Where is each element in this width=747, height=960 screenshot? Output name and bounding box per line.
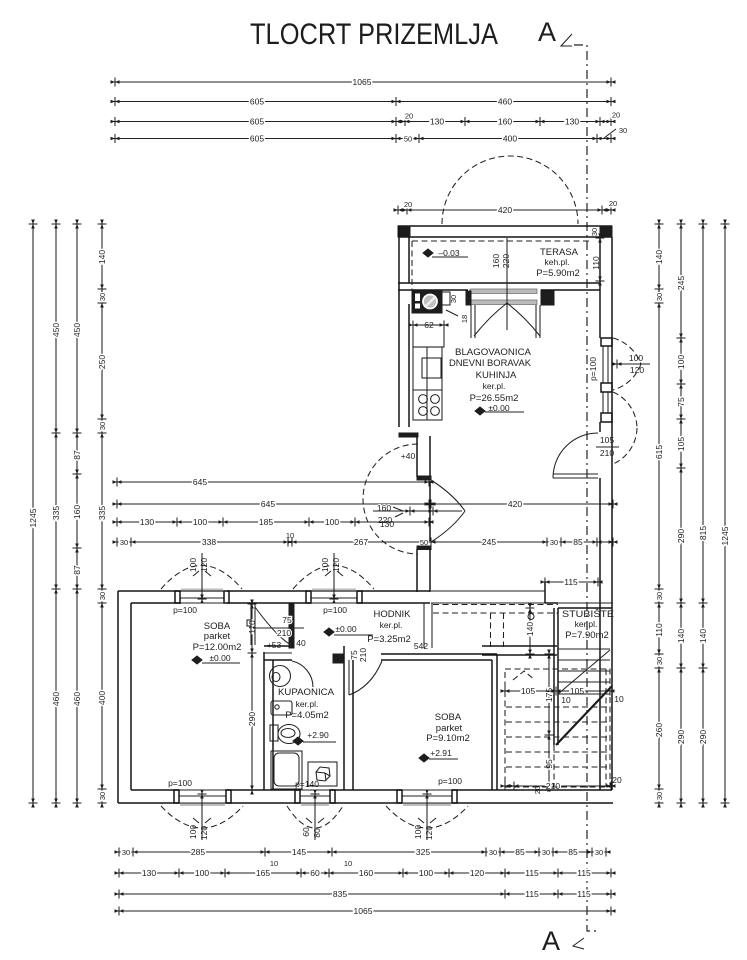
svg-text:120: 120 bbox=[470, 868, 484, 878]
svg-text:400: 400 bbox=[97, 691, 107, 705]
svg-text:160: 160 bbox=[491, 254, 501, 268]
svg-text:815: 815 bbox=[698, 526, 708, 540]
svg-text:645: 645 bbox=[193, 477, 207, 487]
svg-text:115: 115 bbox=[577, 889, 591, 899]
svg-text:p=100: p=100 bbox=[173, 605, 197, 615]
svg-text:645: 645 bbox=[261, 499, 275, 509]
svg-text:605: 605 bbox=[250, 97, 264, 107]
svg-text:P=7.90m2: P=7.90m2 bbox=[565, 630, 609, 641]
svg-text:460: 460 bbox=[51, 692, 61, 706]
svg-text:100: 100 bbox=[320, 558, 330, 572]
svg-text:75: 75 bbox=[282, 615, 292, 625]
svg-text:85: 85 bbox=[568, 847, 578, 857]
svg-text:–0.03: –0.03 bbox=[438, 248, 460, 258]
svg-text:+2.90: +2.90 bbox=[307, 730, 329, 740]
svg-text:30: 30 bbox=[98, 422, 107, 430]
svg-text:keh.pl.: keh.pl. bbox=[544, 257, 569, 267]
svg-text:1245: 1245 bbox=[720, 526, 730, 545]
svg-text:615: 615 bbox=[654, 445, 664, 459]
svg-text:542: 542 bbox=[414, 641, 428, 651]
svg-text:A: A bbox=[538, 17, 556, 47]
svg-text:460: 460 bbox=[72, 692, 82, 706]
svg-text:10: 10 bbox=[614, 694, 624, 704]
svg-text:18: 18 bbox=[460, 315, 469, 323]
svg-text:120: 120 bbox=[199, 558, 209, 572]
svg-text:parket: parket bbox=[204, 631, 231, 642]
svg-text:115: 115 bbox=[564, 577, 578, 587]
svg-text:KUPAONICA: KUPAONICA bbox=[278, 687, 335, 698]
svg-text:250: 250 bbox=[97, 355, 107, 369]
svg-text:120: 120 bbox=[424, 826, 434, 840]
svg-text:165: 165 bbox=[256, 868, 270, 878]
svg-text:20: 20 bbox=[404, 200, 412, 209]
svg-text:210: 210 bbox=[600, 448, 614, 458]
svg-text:30: 30 bbox=[122, 848, 130, 857]
svg-text:75: 75 bbox=[676, 397, 686, 407]
svg-text:87: 87 bbox=[72, 565, 82, 575]
svg-text:335: 335 bbox=[51, 506, 61, 520]
svg-text:400: 400 bbox=[503, 134, 517, 144]
svg-text:30: 30 bbox=[595, 848, 603, 857]
svg-text:220: 220 bbox=[501, 254, 511, 268]
svg-text:20: 20 bbox=[405, 112, 413, 121]
svg-text:p=100: p=100 bbox=[438, 776, 462, 786]
svg-text:460: 460 bbox=[498, 97, 512, 107]
svg-text:10: 10 bbox=[270, 859, 278, 868]
svg-text:260: 260 bbox=[654, 723, 664, 737]
svg-text:130: 130 bbox=[140, 517, 154, 527]
svg-text:105: 105 bbox=[676, 437, 686, 451]
svg-text:605: 605 bbox=[250, 134, 264, 144]
svg-text:p=100: p=100 bbox=[588, 357, 598, 381]
svg-text:100: 100 bbox=[195, 868, 209, 878]
svg-text:290: 290 bbox=[247, 712, 257, 726]
svg-text:100: 100 bbox=[419, 868, 433, 878]
svg-text:100: 100 bbox=[629, 353, 643, 363]
svg-text:p=100: p=100 bbox=[323, 605, 347, 615]
svg-text:335: 335 bbox=[97, 506, 107, 520]
svg-text:30: 30 bbox=[655, 792, 664, 800]
svg-text:50: 50 bbox=[404, 135, 412, 144]
svg-text:290: 290 bbox=[676, 529, 686, 543]
svg-text:1065: 1065 bbox=[353, 77, 372, 87]
svg-text:267: 267 bbox=[354, 537, 368, 547]
svg-text:30: 30 bbox=[489, 848, 497, 857]
svg-text:P=4.05m2: P=4.05m2 bbox=[285, 710, 329, 721]
svg-text:30: 30 bbox=[98, 293, 107, 301]
svg-text:+53: +53 bbox=[267, 640, 282, 650]
svg-text:ker.pl.: ker.pl. bbox=[380, 620, 403, 630]
svg-text:P=5.90m2: P=5.90m2 bbox=[536, 268, 580, 279]
svg-text:100: 100 bbox=[325, 517, 339, 527]
svg-text:40: 40 bbox=[296, 638, 306, 648]
svg-text:A: A bbox=[542, 926, 560, 956]
svg-text:100: 100 bbox=[413, 825, 423, 839]
svg-text:605: 605 bbox=[250, 117, 264, 127]
svg-text:835: 835 bbox=[333, 889, 347, 899]
svg-text:105: 105 bbox=[521, 686, 535, 696]
svg-text:140: 140 bbox=[676, 629, 686, 643]
svg-text:290: 290 bbox=[698, 730, 708, 744]
svg-text:30: 30 bbox=[619, 126, 627, 135]
svg-text:80: 80 bbox=[312, 828, 322, 838]
svg-text:P=9.10m2: P=9.10m2 bbox=[426, 733, 470, 744]
svg-text:30: 30 bbox=[120, 538, 128, 547]
svg-text:20: 20 bbox=[612, 111, 620, 120]
svg-text:130: 130 bbox=[380, 519, 394, 529]
svg-text:30: 30 bbox=[98, 592, 107, 600]
svg-text:ker.pl.: ker.pl. bbox=[575, 619, 598, 629]
svg-text:160: 160 bbox=[498, 117, 512, 127]
svg-text:110: 110 bbox=[654, 623, 664, 637]
svg-text:HODNIK: HODNIK bbox=[374, 609, 412, 620]
svg-text:60: 60 bbox=[310, 868, 320, 878]
svg-text:130: 130 bbox=[142, 868, 156, 878]
svg-text:ker.pl.: ker.pl. bbox=[296, 699, 319, 709]
svg-text:KUHINJA: KUHINJA bbox=[476, 370, 517, 381]
svg-text:420: 420 bbox=[508, 499, 522, 509]
svg-text:10: 10 bbox=[561, 695, 571, 705]
svg-text:100: 100 bbox=[188, 558, 198, 572]
svg-text:338: 338 bbox=[202, 537, 216, 547]
svg-text:SOBA: SOBA bbox=[435, 712, 462, 723]
svg-text:130: 130 bbox=[565, 117, 579, 127]
svg-text:100: 100 bbox=[676, 355, 686, 369]
svg-text:115: 115 bbox=[525, 868, 539, 878]
svg-text:285: 285 bbox=[191, 847, 205, 857]
svg-text:±0.00: ±0.00 bbox=[488, 403, 509, 413]
svg-text:245: 245 bbox=[676, 276, 686, 290]
svg-text:245: 245 bbox=[482, 537, 496, 547]
svg-text:110: 110 bbox=[591, 256, 601, 270]
svg-text:115: 115 bbox=[525, 889, 539, 899]
svg-text:60: 60 bbox=[301, 827, 311, 837]
svg-text:±0.00: ±0.00 bbox=[335, 624, 356, 634]
svg-text:30: 30 bbox=[590, 228, 599, 236]
svg-text:325: 325 bbox=[416, 847, 430, 857]
svg-text:160: 160 bbox=[359, 868, 373, 878]
svg-text:1245: 1245 bbox=[28, 508, 38, 527]
svg-text:P=3.25m2: P=3.25m2 bbox=[367, 634, 411, 645]
svg-text:30: 30 bbox=[449, 295, 458, 303]
svg-text:ker.pl.: ker.pl. bbox=[483, 381, 506, 391]
svg-text:140: 140 bbox=[97, 250, 107, 264]
svg-text:30: 30 bbox=[655, 293, 664, 301]
svg-text:140: 140 bbox=[525, 622, 535, 636]
svg-text:+2.91: +2.91 bbox=[430, 748, 452, 758]
svg-text:20: 20 bbox=[609, 199, 617, 208]
svg-text:145: 145 bbox=[292, 847, 306, 857]
svg-text:450: 450 bbox=[51, 323, 61, 337]
svg-text:30: 30 bbox=[655, 592, 664, 600]
svg-text:BLAGOVAONICA: BLAGOVAONICA bbox=[455, 347, 532, 358]
svg-text:120: 120 bbox=[630, 365, 644, 375]
svg-text:115: 115 bbox=[577, 868, 591, 878]
svg-text:140: 140 bbox=[698, 629, 708, 643]
svg-text:20: 20 bbox=[612, 775, 622, 785]
svg-text:10: 10 bbox=[344, 859, 352, 868]
svg-text:±0.00: ±0.00 bbox=[209, 653, 230, 663]
svg-text:100: 100 bbox=[193, 517, 207, 527]
svg-text:30: 30 bbox=[655, 657, 664, 665]
svg-text:185: 185 bbox=[259, 517, 273, 527]
svg-text:85: 85 bbox=[515, 847, 525, 857]
svg-text:210: 210 bbox=[277, 628, 291, 638]
svg-text:140: 140 bbox=[654, 250, 664, 264]
svg-text:120: 120 bbox=[331, 558, 341, 572]
svg-text:p=140: p=140 bbox=[295, 779, 319, 789]
svg-text:10: 10 bbox=[286, 531, 294, 540]
svg-text:210: 210 bbox=[358, 648, 368, 662]
svg-text:420: 420 bbox=[498, 205, 512, 215]
svg-text:30: 30 bbox=[542, 848, 550, 857]
svg-text:P=12.00m2: P=12.00m2 bbox=[193, 642, 242, 653]
svg-text:DNEVNI BORAVAK: DNEVNI BORAVAK bbox=[449, 358, 532, 369]
svg-text:85: 85 bbox=[573, 537, 583, 547]
svg-text:450: 450 bbox=[72, 323, 82, 337]
svg-text:TLOCRT PRIZEMLJA: TLOCRT PRIZEMLJA bbox=[250, 18, 498, 51]
svg-text:30: 30 bbox=[550, 538, 558, 547]
svg-text:160: 160 bbox=[72, 505, 82, 519]
svg-text:290: 290 bbox=[676, 730, 686, 744]
svg-text:+40: +40 bbox=[401, 451, 416, 461]
svg-text:100: 100 bbox=[188, 825, 198, 839]
svg-text:87: 87 bbox=[72, 450, 82, 460]
svg-text:130: 130 bbox=[430, 117, 444, 127]
svg-text:105: 105 bbox=[600, 435, 614, 445]
svg-text:1065: 1065 bbox=[354, 906, 373, 916]
svg-text:p=100: p=100 bbox=[168, 778, 192, 788]
svg-text:120: 120 bbox=[199, 826, 209, 840]
svg-text:30: 30 bbox=[98, 792, 107, 800]
